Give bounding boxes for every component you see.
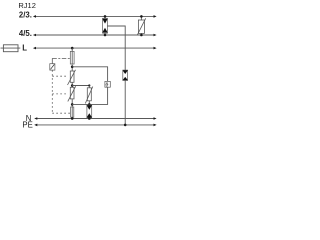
wire PE rail xyxy=(37,124,154,126)
node on 2/3 at U1 xyxy=(104,15,107,18)
svg-text:4/5.: 4/5. xyxy=(19,29,32,38)
wire connector C to theta column xyxy=(72,87,107,104)
arrow right L xyxy=(154,47,157,50)
wire U1 centre tap to earth column xyxy=(107,26,125,70)
varistor V2 xyxy=(68,86,76,101)
wire 2/3 rail xyxy=(35,15,153,17)
arrow left 4/5 xyxy=(33,34,36,37)
wire N rail xyxy=(37,118,154,120)
arrow left PE xyxy=(34,124,37,127)
gas discharge tube U1 (3-electrode, between 2/3 and 4/5) xyxy=(102,16,107,35)
svg-text:RJ12: RJ12 xyxy=(18,1,36,10)
varistor R1 (between 2/3 and 4/5) xyxy=(138,16,146,35)
node on N at U3 xyxy=(88,117,91,120)
node junction C xyxy=(71,103,74,106)
switch box SW (disconnector in N path) xyxy=(71,107,74,117)
wire dashed vertical linkage xyxy=(51,70,53,113)
wire 4/5 rail xyxy=(35,34,153,36)
node on PE at earth column xyxy=(124,124,127,127)
arrow right 2/3 xyxy=(154,15,157,18)
wire L input stub through fuse xyxy=(1,47,21,49)
varistor V1 xyxy=(68,70,76,85)
svg-text:PE: PE xyxy=(22,120,32,129)
fuse F (mains input) xyxy=(3,45,18,52)
theta box (thermal monitoring) xyxy=(105,81,110,88)
fuse F1 (thermal disconnector column) xyxy=(70,51,74,64)
node junction B xyxy=(71,84,74,87)
node junction D xyxy=(88,103,91,106)
arrow left L xyxy=(33,47,36,50)
node on L at power column xyxy=(71,47,74,50)
wire L rail xyxy=(35,47,153,49)
node junction A (branch to monitoring) xyxy=(71,66,74,69)
arrow left N xyxy=(34,117,37,120)
wire V1 to V2 xyxy=(71,82,73,87)
disconnector K1 (dashed mechanism) xyxy=(52,58,70,63)
gas discharge tube U2 (earth column) xyxy=(123,70,128,80)
node on 2/3 at R1 xyxy=(140,15,143,18)
wire link down to K1 box xyxy=(51,58,53,63)
gas discharge tube U3 (V4 to N) xyxy=(87,105,92,119)
node on 4/5 at R1 xyxy=(140,34,143,37)
wire dashed stub to SW xyxy=(52,112,70,114)
wire branch A to theta box xyxy=(72,67,107,82)
arrow left 2/3 xyxy=(33,15,36,18)
wire L to fuse F1 xyxy=(71,48,73,51)
wire earth column to PE xyxy=(124,80,126,125)
wire F1 to V1 xyxy=(71,65,73,71)
arrow right PE xyxy=(154,124,157,127)
svg-text:ϑ: ϑ xyxy=(105,82,108,88)
wire dashed link to F1 xyxy=(52,57,70,59)
arrow right 4/5 xyxy=(154,34,157,37)
wire dashed stub to V2 xyxy=(52,93,67,95)
node at V4 top xyxy=(88,84,90,86)
node on N at SW xyxy=(71,117,74,120)
node on 4/5 at U1 xyxy=(104,34,107,37)
svg-text:L: L xyxy=(22,43,27,52)
varistor V4 xyxy=(85,86,93,106)
disconnector K1 box xyxy=(50,64,55,70)
arrow right N xyxy=(154,117,157,120)
wire SW to N xyxy=(71,117,73,118)
wire branch B to V4 xyxy=(72,85,89,87)
wire V2 to node C xyxy=(71,99,73,107)
wire dashed stub to V1 xyxy=(52,75,67,77)
svg-text:2/3.: 2/3. xyxy=(19,11,32,20)
